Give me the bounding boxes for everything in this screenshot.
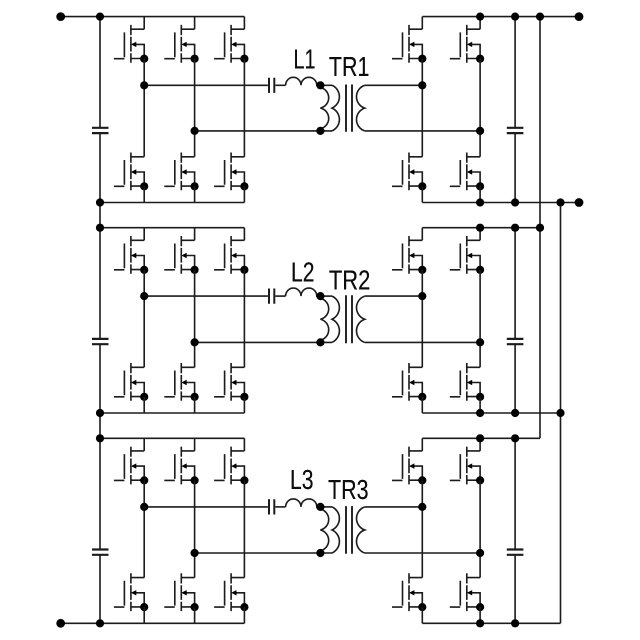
inductor L1 [286,77,321,85]
svg-text:L2: L2 [291,256,315,287]
node input terminal negative [56,619,65,628]
MOSFET module 2 left bridge leg 1 high-side [114,236,148,274]
node module 1 right top rail cap [511,13,519,21]
transformer TR2 primary top lead [320,295,332,297]
wire module 2 left top rail [100,227,244,229]
svg-text:TR3: TR3 [328,474,369,505]
node input terminal positive [56,12,65,21]
wire module 2 left leg 1 top-FET drain [143,228,145,241]
svg-text:TR1: TR1 [329,51,370,82]
MOSFET module 1 right bridge leg B low-side [450,153,484,191]
wire module 2 left leg 2 top-FET drain [194,228,196,241]
wire module 3 secondary bottom to right leg B [365,552,480,554]
wire module 3 right leg B to bottom rail [479,607,481,623]
wire module 2 right leg A top-FET drain [421,228,423,241]
MOSFET module 3 left bridge leg 2 high-side [164,447,198,485]
node module 2 left leg 2 AC tap [191,338,199,346]
wire module 2 secondary bottom to right leg B [365,341,480,343]
wire module 2 secondary top to right leg A [365,295,423,297]
MOSFET module 1 left bridge leg 1 high-side [114,25,148,63]
MOSFET module 2 right bridge leg A high-side [392,236,426,274]
node module 3 right leg B AC tap [476,549,484,557]
node module 2 right leg A AC tap [418,292,426,300]
wire module 2 AC line from leg 1 to series capacitor [144,295,268,297]
node TR3 primary top junction [316,503,324,511]
node module 2 right top rail cap [511,224,519,232]
wire module 1 left top rail [61,16,245,18]
wire module 1 output cap rail upper [514,17,516,128]
MOSFET module 2 left bridge leg 2 high-side [164,236,198,274]
wire module 2 right leg B to bottom rail [479,397,481,413]
wire input DC bus segment 4 (x=100) [99,555,101,623]
capacitor C1b output-side module 1 [507,128,524,133]
wire module 2 left leg 3 top-FET drain [243,228,245,241]
node left bus module 1 bottom [96,198,104,206]
node module 3 left leg 2 AC tap [191,549,199,557]
capacitor C2a input-side module 2 (on left bus) [92,339,109,344]
node module 1 right leg A AC tap [418,81,426,89]
wire module 2 series capacitor to inductor L2 [275,295,285,297]
node TR2 primary top junction [316,292,324,300]
wire module 3 right bottom rail [422,622,560,624]
MOSFET module 2 left bridge leg 1 low-side [114,363,148,401]
wire module 3 left bottom rail [61,622,245,624]
wire module 1 left leg 1 top-FET drain [143,17,145,30]
wire module 1 secondary bottom to right leg B [365,130,480,132]
wire output bus joining module top rails (x=540) [539,17,541,439]
wire module 2 right top rail [422,227,540,229]
MOSFET module 2 left bridge leg 3 high-side [214,236,248,274]
transformer TR3 primary top lead [320,506,332,508]
wire module 2 left leg 1 to bottom rail [143,397,145,413]
wire module 2 right leg A to bottom rail [421,397,423,413]
node module 2 right top rail leg B [476,224,484,232]
MOSFET module 1 right bridge leg B high-side [450,25,484,63]
transformer TR1 primary outer winding [332,85,339,131]
capacitor C1a input-side module 1 (on left bus) [92,128,109,133]
MOSFET module 3 right bridge leg A high-side [392,447,426,485]
MOSFET module 2 left bridge leg 2 low-side [164,363,198,401]
node module 3 right bottom rail cap [511,619,519,627]
wire module 1 left leg 3 top-FET drain [243,17,245,30]
wire module 1 output cap rail lower [514,133,516,202]
wire module 1 left leg 1 midsection [143,59,145,157]
wire module 3 right leg B midsection [479,480,481,577]
node output terminal negative [575,198,584,207]
MOSFET module 3 left bridge leg 1 high-side [114,447,148,485]
transformer TR3 primary inner winding [320,509,328,551]
wire module 3 right leg A midsection [421,480,423,577]
node module 1 right bottom rail cap [511,198,519,206]
transformer TR3 secondary winding [357,507,365,553]
node module 3 right leg A AC tap [418,503,426,511]
node module 1 right bottom rail leg B [476,198,484,206]
wire module 3 left top rail [100,437,244,439]
MOSFET module 2 right bridge leg B high-side [450,236,484,274]
wire module 1 AC return from leg 2 to transformer primary bottom [195,130,332,132]
MOSFET module 3 left bridge leg 3 low-side [214,573,248,611]
wire module 1 left leg 2 top-FET drain [194,17,196,30]
wire module 3 left leg 3 top-FET drain [243,438,245,451]
node module 2 right leg B AC tap [476,338,484,346]
MOSFET module 1 left bridge leg 2 low-side [164,153,198,191]
wire output bus joining module bottom rails (x=560.5) [560,203,562,624]
node bottom-rail bus module 2 [556,409,564,417]
node top-rail bus module 1 [536,13,544,21]
wire module 1 series capacitor to inductor L1 [275,84,285,86]
wire module 1 secondary top to right leg A [365,84,423,86]
inductor L2 [286,288,321,296]
wire module 1 right top rail [422,16,579,18]
wire module 3 left leg 2 to bottom rail [194,607,196,623]
wire module 2 right bottom rail [422,412,560,414]
capacitor Cs1 series blocking capacitor [269,78,274,93]
wire module 3 left leg 1 midsection [143,480,145,577]
wire module 1 right leg A midsection [421,59,423,157]
node TR1 primary top junction [316,81,324,89]
MOSFET module 3 right bridge leg B high-side [450,447,484,485]
MOSFET module 3 left bridge leg 2 low-side [164,573,198,611]
transformer TR1 primary inner winding [320,88,328,129]
wire module 2 right leg A midsection [421,270,423,368]
transformer TR1 secondary winding [356,85,364,131]
wire module 1 left leg 3 to bottom rail [243,186,245,202]
node module 1 right leg B AC tap [476,127,484,135]
node TR2 primary bottom junction [316,338,324,346]
wire module 2 output cap rail lower [514,344,516,413]
svg-text:TR2: TR2 [329,265,371,296]
node module 2 left leg 1 AC tap [140,292,148,300]
wire module 1 right leg B top-FET drain [479,17,481,30]
wire module 1 right leg B midsection [479,59,481,157]
node module 1 left leg 1 AC tap [140,81,148,89]
wire module 1 left bottom rail [100,202,244,204]
node left bus module 3 top [96,434,104,442]
wire module 2 left leg 3 to bottom rail [243,397,245,413]
transformer TR2 primary outer winding [332,296,339,342]
wire module 2 output cap rail upper [514,228,516,339]
transformer TR2 primary inner winding [320,298,328,340]
transformer TR3 core [346,506,352,554]
svg-text:L3: L3 [290,464,314,495]
capacitor C3b output-side module 3 [507,550,524,555]
transformer TR1 primary top lead [320,84,332,86]
MOSFET module 2 right bridge leg A low-side [392,363,426,401]
node output terminal positive [575,12,584,21]
capacitor C3a input-side module 3 (on left bus) [92,550,109,555]
MOSFET module 1 left bridge leg 3 high-side [214,25,248,63]
node bottom-rail bus module 1 [556,198,564,206]
wire module 1 right leg B to bottom rail [479,186,481,202]
node module 2 right bottom rail leg B [476,409,484,417]
MOSFET module 1 right bridge leg A high-side [392,25,426,63]
MOSFET module 1 left bridge leg 1 low-side [114,153,148,191]
node module 2 right bottom rail cap [511,409,519,417]
wire module 3 AC line from leg 1 to series capacitor [144,506,268,508]
MOSFET module 3 right bridge leg A low-side [392,573,426,611]
wire module 1 right bottom rail [422,202,579,204]
wire module 3 series capacitor to inductor L3 [275,506,285,508]
wire input DC bus segment 1 (x=100) [99,17,101,128]
node module 3 right top rail cap [511,434,519,442]
node module 1 left leg 2 AC tap [191,127,199,135]
wire module 3 left leg 1 to bottom rail [143,607,145,623]
MOSFET module 2 left bridge leg 3 low-side [214,363,248,401]
wire module 3 left leg 1 top-FET drain [143,438,145,451]
wire module 1 left leg 2 midsection [194,59,196,157]
transformer TR1 core [346,85,352,132]
wire module 3 left leg 3 to bottom rail [243,607,245,623]
transformer TR3 primary outer winding [332,507,339,553]
wire module 3 output cap rail lower [514,555,516,623]
capacitor Cs3 series blocking capacitor [269,499,274,514]
wire module 2 right leg B midsection [479,270,481,368]
MOSFET module 3 right bridge leg B low-side [450,573,484,611]
wire module 2 left leg 3 midsection [243,270,245,368]
MOSFET module 2 right bridge leg B low-side [450,363,484,401]
node left bus module 2 bottom [96,409,104,417]
wire module 1 left leg 1 to bottom rail [143,186,145,202]
node TR1 primary bottom junction [316,127,324,135]
svg-text:L1: L1 [294,44,316,75]
wire module 1 left leg 2 to bottom rail [194,186,196,202]
node module 3 right top rail leg B [476,434,484,442]
node module 1 right top rail leg B [476,13,484,21]
wire module 3 AC return from leg 2 to transformer primary bottom [195,552,332,554]
wire input DC bus segment 2 (x=100) [99,133,101,339]
node module 3 left leg 1 AC tap [140,503,148,511]
node left bus module 1 top [96,13,104,21]
wire module 2 right leg B top-FET drain [479,228,481,241]
wire module 2 left leg 2 midsection [194,270,196,368]
wire input DC bus segment 3 (x=100) [99,344,101,549]
wire module 2 left leg 1 midsection [143,270,145,368]
wire module 3 secondary top to right leg A [365,506,423,508]
wire module 3 right leg A top-FET drain [421,438,423,451]
wire module 3 right leg A to bottom rail [421,607,423,623]
wire module 3 left leg 2 top-FET drain [194,438,196,451]
wire module 2 AC return from leg 2 to transformer primary bottom [195,341,332,343]
wire module 2 left leg 2 to bottom rail [194,397,196,413]
node left bus module 2 top [96,224,104,232]
wire module 1 right leg A top-FET drain [421,17,423,30]
inductor L3 [286,499,321,507]
wire module 3 left leg 3 midsection [243,480,245,577]
wire module 3 output cap rail upper [514,438,516,549]
MOSFET module 3 left bridge leg 3 high-side [214,447,248,485]
transformer TR2 core [346,295,352,343]
MOSFET module 1 right bridge leg A low-side [392,153,426,191]
wire module 3 right top rail [422,437,540,439]
node top-rail bus module 2 [536,224,544,232]
wire module 1 left leg 3 midsection [243,59,245,157]
wire module 3 right leg B top-FET drain [479,438,481,451]
capacitor Cs2 series blocking capacitor [269,289,274,304]
wire module 1 AC line from leg 1 to series capacitor [144,84,268,86]
wire module 2 left bottom rail [100,412,244,414]
wire module 3 left leg 2 midsection [194,480,196,577]
MOSFET module 3 left bridge leg 1 low-side [114,573,148,611]
MOSFET module 1 left bridge leg 2 high-side [164,25,198,63]
node left bus module 3 bottom [96,619,104,627]
transformer TR2 secondary winding [357,296,365,342]
node module 3 right bottom rail leg B [476,619,484,627]
wire module 1 right leg A to bottom rail [421,186,423,202]
node TR3 primary bottom junction [316,549,324,557]
capacitor C2b output-side module 2 [507,339,524,344]
MOSFET module 1 left bridge leg 3 low-side [214,153,248,191]
